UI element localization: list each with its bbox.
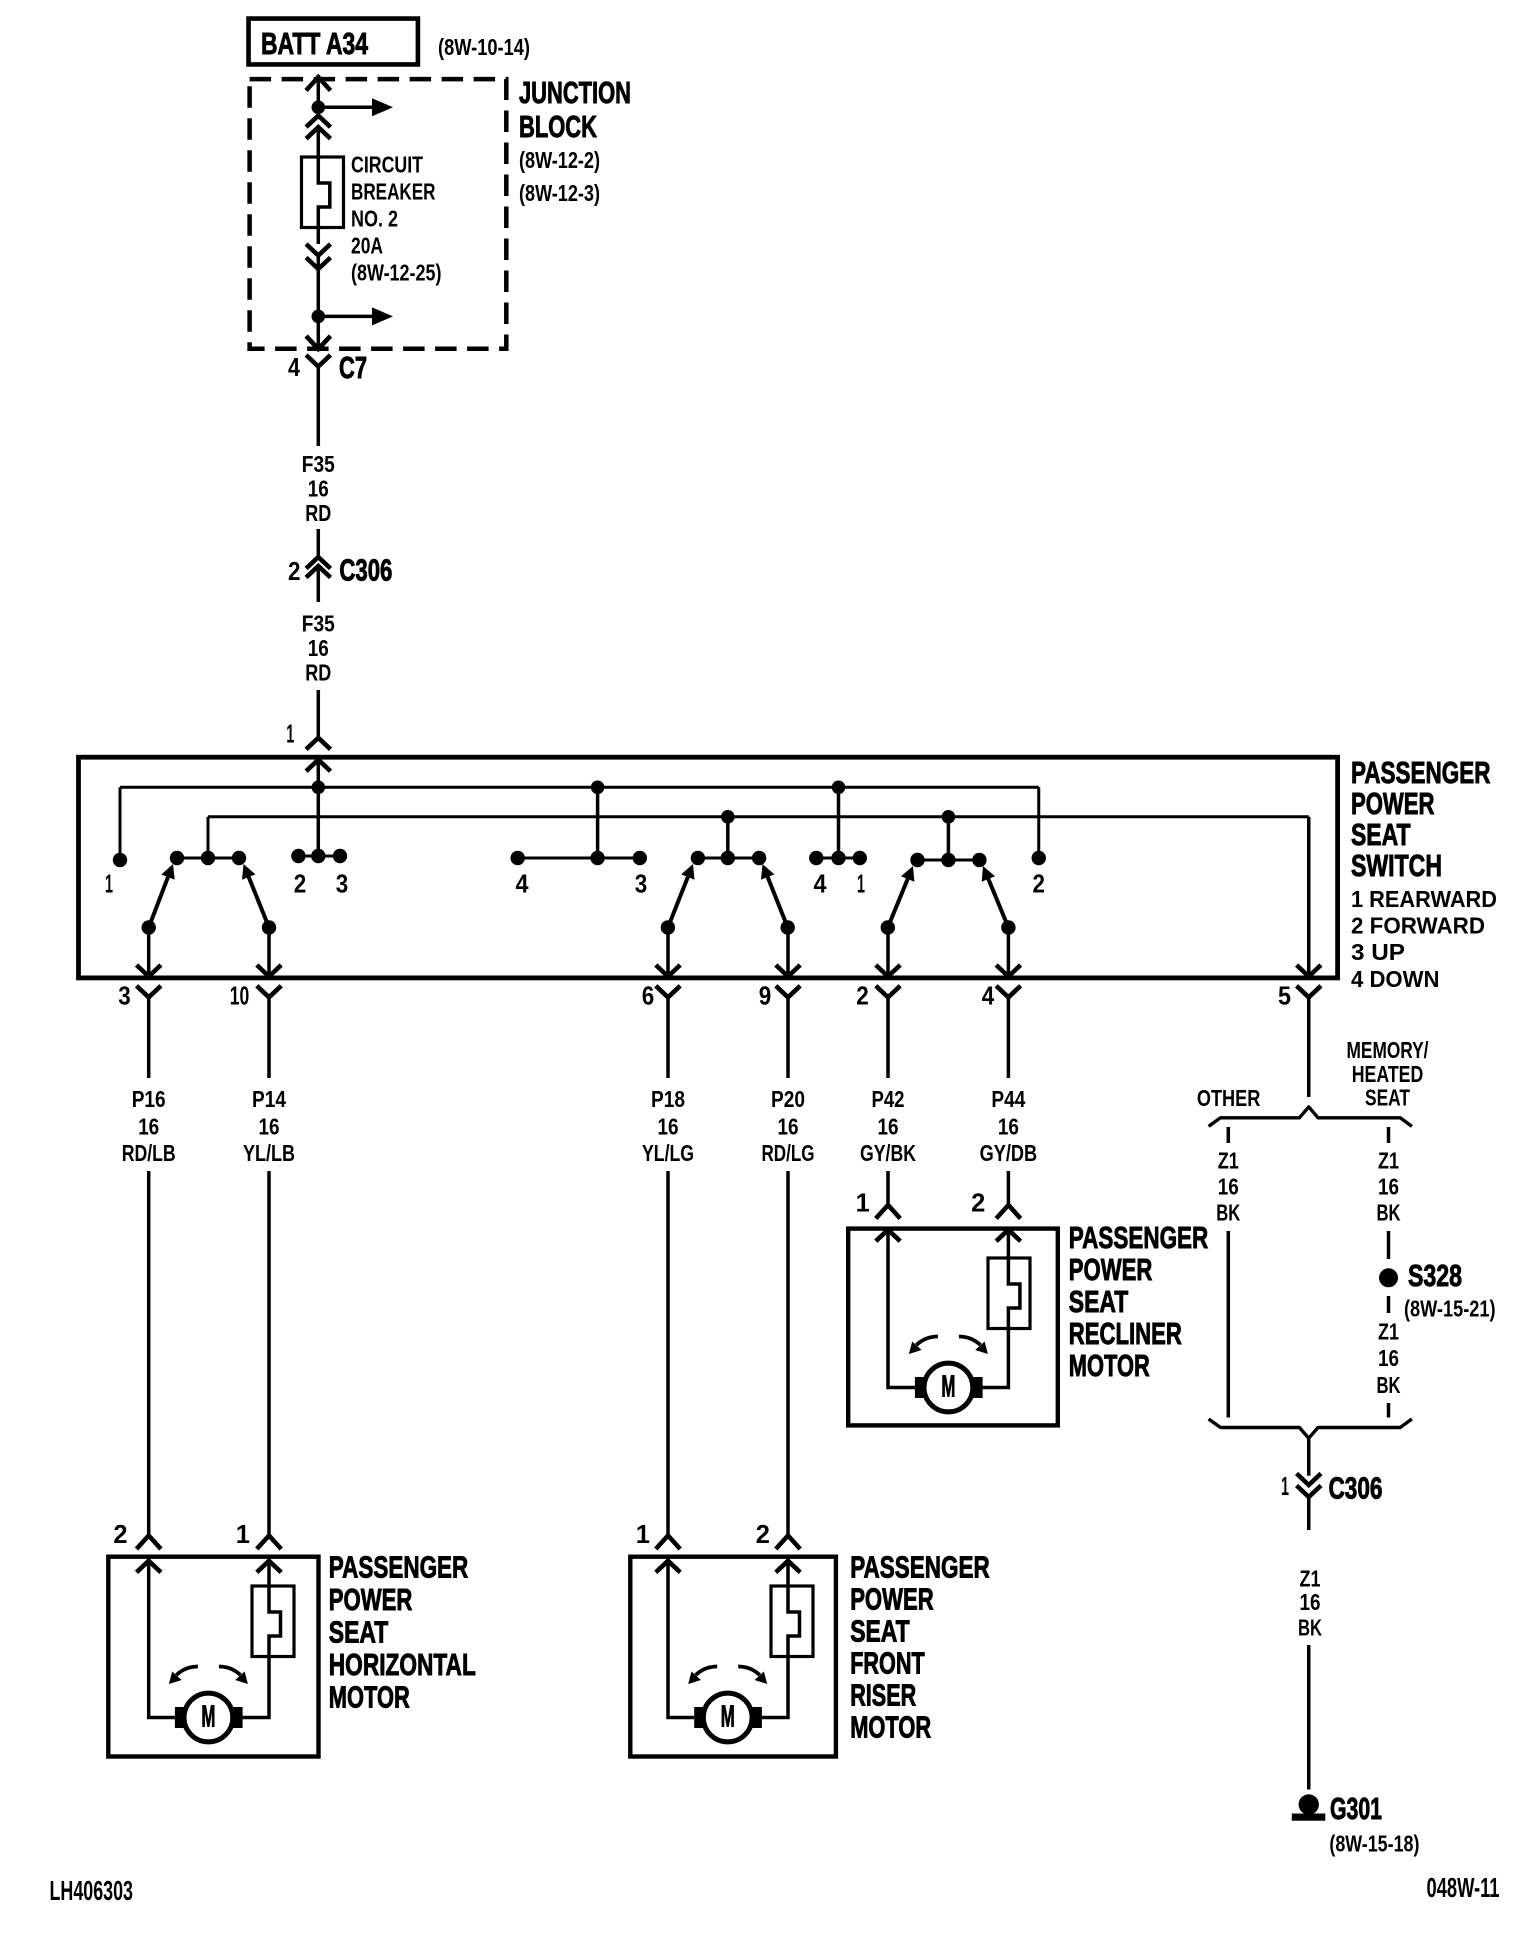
wire to switch pin 1	[317, 690, 321, 738]
wire P14 to horizontal motor	[267, 1171, 271, 1536]
svg-text:SWITCH: SWITCH	[1351, 849, 1442, 883]
svg-text:4: 4	[516, 871, 530, 899]
connector C306 pin 1 (ground side)	[1297, 1474, 1321, 1486]
svg-text:16: 16	[308, 635, 329, 661]
wire P42 to recliner motor	[886, 1171, 890, 1205]
switch pin 6 exit	[666, 928, 670, 976]
svg-text:POWER: POWER	[850, 1583, 934, 1617]
contact group pins2/4 fixed contacts	[918, 859, 980, 862]
svg-text:4: 4	[814, 871, 828, 899]
arrow to other circuits (top)	[318, 106, 372, 110]
wire feed from BATT into junction block	[306, 77, 330, 91]
recliner motor box	[848, 1229, 1058, 1426]
wire to ground G301	[1307, 1645, 1311, 1790]
svg-text:SEAT: SEAT	[1069, 1285, 1129, 1319]
svg-text:GY/DB: GY/DB	[980, 1140, 1038, 1166]
front riser motor rotation arcs	[696, 1667, 718, 1676]
svg-text:1: 1	[105, 871, 113, 899]
svg-text:POWER: POWER	[329, 1583, 413, 1617]
svg-text:RISER: RISER	[850, 1679, 916, 1713]
svg-text:M: M	[941, 1369, 955, 1403]
horizontal motor pin 2 entry	[137, 1536, 161, 1550]
wire P20 to front riser motor	[786, 1171, 790, 1536]
bus A right drop to contact 2	[1037, 787, 1040, 855]
svg-text:16: 16	[308, 476, 329, 502]
circuit breaker no.2 20A	[302, 157, 344, 228]
wire P18 to front riser motor	[666, 1171, 670, 1536]
wire pin2 through breaker to riser motor	[786, 1561, 790, 1586]
svg-text:6: 6	[642, 983, 655, 1011]
svg-text:JUNCTION: JUNCTION	[519, 76, 631, 110]
svg-text:CIRCUIT: CIRCUIT	[351, 152, 423, 178]
svg-text:Z1: Z1	[1378, 1148, 1399, 1174]
node bus A mid	[591, 781, 605, 795]
svg-text:4: 4	[982, 983, 995, 1011]
svg-text:P18: P18	[651, 1086, 685, 1112]
front riser motor pin 2 entry	[776, 1536, 800, 1550]
svg-text:3: 3	[118, 983, 131, 1011]
svg-text:PASSENGER: PASSENGER	[1069, 1221, 1209, 1255]
bus B left drop	[207, 817, 210, 853]
wire pin1 through breaker to motor	[267, 1561, 271, 1586]
switch pin 9 exit	[786, 928, 790, 976]
node breaker output	[312, 310, 326, 324]
svg-text:20A: 20A	[351, 233, 383, 259]
junction block (dashed box)	[250, 79, 507, 349]
contact 1 (single)	[113, 853, 127, 867]
svg-text:BREAKER: BREAKER	[351, 179, 436, 205]
connector C7 pin 4	[306, 355, 330, 367]
svg-text:16: 16	[1378, 1174, 1399, 1200]
svg-text:SEAT: SEAT	[850, 1615, 910, 1649]
bus A wire	[120, 786, 1039, 789]
svg-text:BK: BK	[1377, 1200, 1401, 1226]
recliner motor pin 1 entry	[876, 1205, 900, 1219]
svg-text:OTHER: OTHER	[1197, 1085, 1261, 1111]
svg-text:P42: P42	[872, 1086, 905, 1112]
switch pin 10 exit	[267, 928, 271, 976]
svg-text:16: 16	[1218, 1174, 1239, 1200]
front riser motor M	[703, 1693, 752, 1742]
svg-text:Z1: Z1	[1218, 1148, 1239, 1174]
svg-text:9: 9	[759, 983, 772, 1011]
svg-text:2: 2	[113, 1521, 127, 1549]
wire pin1 to riser motor	[668, 1561, 694, 1718]
passenger power seat horizontal motor box	[108, 1557, 318, 1757]
svg-text:10: 10	[230, 983, 250, 1011]
switch pin 4 exit	[1007, 928, 1011, 976]
passenger power seat switch box	[79, 757, 1338, 978]
front riser motor box	[630, 1557, 836, 1757]
node bus A right	[832, 781, 846, 795]
wire bus B mid to contacts	[726, 817, 730, 858]
wire to C306	[317, 529, 321, 557]
svg-text:(8W-15-18): (8W-15-18)	[1329, 1831, 1419, 1857]
svg-text:Z1: Z1	[1378, 1319, 1399, 1345]
svg-text:S328: S328	[1408, 1259, 1462, 1293]
svg-text:(8W-15-21): (8W-15-21)	[1404, 1296, 1496, 1322]
wire pin2 to motor	[149, 1561, 175, 1718]
wire merge to C306	[1307, 1438, 1311, 1476]
ground G301	[1299, 1794, 1319, 1814]
svg-text:(8W-10-14): (8W-10-14)	[438, 34, 530, 60]
svg-text:1: 1	[286, 721, 294, 749]
svg-text:RD/LG: RD/LG	[762, 1140, 815, 1166]
bus B right drop to pin 5	[1307, 817, 1311, 975]
svg-text:16: 16	[998, 1114, 1019, 1140]
node feed junction	[312, 101, 326, 115]
contact 2 (single)	[1032, 851, 1046, 865]
svg-text:HORIZONTAL: HORIZONTAL	[329, 1648, 476, 1682]
svg-text:G301: G301	[1330, 1792, 1382, 1826]
svg-text:1: 1	[857, 871, 865, 899]
svg-text:PASSENGER: PASSENGER	[329, 1551, 469, 1585]
node bus B mid	[721, 810, 735, 824]
svg-text:MOTOR: MOTOR	[329, 1681, 410, 1715]
wire to junction block edge	[317, 316, 321, 348]
wiper pin 10	[262, 920, 276, 934]
wire pin1 to bus A	[317, 760, 321, 789]
switch pin 3 exit	[147, 928, 151, 976]
recliner motor pin 2 entry	[996, 1205, 1020, 1219]
svg-text:BK: BK	[1298, 1615, 1322, 1641]
wiper pin 4	[1001, 920, 1015, 934]
svg-text:2: 2	[294, 871, 307, 899]
svg-text:RD: RD	[305, 500, 331, 526]
wire feed dot to 2-3 contacts	[317, 787, 321, 856]
svg-text:16: 16	[1378, 1345, 1399, 1371]
wire P16 to horizontal motor	[147, 1171, 151, 1536]
connector chevrons inside junction block	[306, 116, 330, 128]
svg-text:(8W-12-2): (8W-12-2)	[519, 147, 600, 173]
dashed lead to merge	[1387, 1403, 1391, 1418]
front riser motor pin 1 entry	[656, 1536, 680, 1550]
svg-text:5: 5	[1278, 983, 1291, 1011]
svg-text:M: M	[721, 1699, 735, 1733]
svg-text:4: 4	[288, 354, 301, 382]
svg-text:BK: BK	[1377, 1372, 1401, 1398]
svg-text:F35: F35	[302, 611, 335, 637]
dashed wire to splice S328	[1387, 1231, 1391, 1259]
svg-text:SEAT: SEAT	[1351, 818, 1411, 852]
bus B wire	[208, 815, 1309, 818]
svg-text:C306: C306	[339, 554, 392, 588]
svg-text:P44: P44	[991, 1086, 1025, 1112]
switch pin 5 exit	[1307, 928, 1311, 976]
dashed lead OTHER branch	[1227, 1127, 1231, 1143]
svg-text:1 REARWARD: 1 REARWARD	[1351, 886, 1497, 912]
svg-text:(8W-12-3): (8W-12-3)	[519, 180, 600, 206]
wire bus B to pins2/4 contacts	[947, 817, 951, 860]
wire bus A to 4-3 contacts	[596, 787, 600, 858]
svg-text:BATT A34: BATT A34	[261, 27, 368, 61]
horizontal motor rotation arcs	[176, 1667, 198, 1676]
svg-text:POWER: POWER	[1069, 1253, 1153, 1287]
wire breaker output	[317, 256, 321, 317]
svg-text:NO. 2: NO. 2	[351, 206, 398, 232]
svg-text:3: 3	[336, 871, 349, 899]
svg-text:PASSENGER: PASSENGER	[850, 1551, 990, 1585]
connector C306 pin 2	[306, 557, 330, 569]
svg-text:P20: P20	[771, 1086, 805, 1112]
wire pin1 to recliner motor	[888, 1230, 915, 1388]
svg-text:16: 16	[878, 1114, 899, 1140]
svg-text:2: 2	[856, 983, 869, 1011]
recliner motor rotation arcs	[916, 1337, 938, 1346]
svg-text:1: 1	[636, 1521, 650, 1549]
svg-text:RECLINER: RECLINER	[1069, 1317, 1182, 1351]
svg-text:2 FORWARD: 2 FORWARD	[1351, 913, 1485, 939]
svg-text:BLOCK: BLOCK	[519, 110, 597, 144]
svg-text:2: 2	[971, 1190, 985, 1218]
svg-text:1: 1	[1281, 1473, 1289, 1501]
split brace to OTHER / MEMORY-HEATED SEAT	[1209, 1107, 1412, 1127]
svg-text:MEMORY/: MEMORY/	[1347, 1037, 1429, 1063]
wiper pin 6	[661, 920, 675, 934]
wire Z1 OTHER branch	[1227, 1231, 1231, 1418]
svg-text:4 DOWN: 4 DOWN	[1351, 966, 1440, 992]
svg-text:16: 16	[658, 1114, 679, 1140]
recliner motor thermal breaker	[988, 1258, 1030, 1329]
svg-text:SEAT: SEAT	[1365, 1085, 1410, 1111]
svg-text:POWER: POWER	[1351, 787, 1435, 821]
arrow to other circuits (bottom)	[318, 315, 372, 319]
connector chevrons below breaker	[317, 228, 321, 245]
switch connector pin 1	[306, 738, 330, 750]
svg-text:2: 2	[288, 558, 301, 586]
svg-text:Z1: Z1	[1300, 1566, 1321, 1592]
svg-text:1: 1	[236, 1521, 250, 1549]
wire to circuit breaker	[317, 127, 321, 157]
svg-text:F35: F35	[302, 451, 335, 477]
splice S328	[1379, 1268, 1398, 1287]
svg-text:3: 3	[635, 871, 648, 899]
wiper pin 3	[142, 920, 156, 934]
svg-text:YL/LB: YL/LB	[243, 1140, 295, 1166]
svg-text:P16: P16	[132, 1086, 166, 1112]
contact group 4-3	[518, 857, 640, 860]
contact group pins6/9 fixed contacts	[698, 857, 759, 860]
svg-text:GY/BK: GY/BK	[860, 1140, 916, 1166]
power feed box BATT A34	[249, 19, 418, 65]
svg-text:2: 2	[756, 1521, 770, 1549]
svg-text:C306: C306	[1329, 1472, 1383, 1506]
svg-text:FRONT: FRONT	[850, 1647, 925, 1681]
svg-text:M: M	[201, 1699, 215, 1733]
wire bus A right to 4-1 contacts	[837, 787, 841, 858]
contact group 4-1	[816, 857, 860, 860]
horizontal motor M	[184, 1693, 233, 1742]
svg-text:16: 16	[1300, 1589, 1321, 1615]
svg-text:16: 16	[778, 1114, 799, 1140]
svg-text:16: 16	[259, 1114, 280, 1140]
svg-text:PASSENGER: PASSENGER	[1351, 756, 1491, 790]
svg-text:048W-11: 048W-11	[1427, 1872, 1500, 1903]
switch pin 2 exit	[886, 928, 890, 976]
front riser motor thermal breaker	[771, 1586, 813, 1657]
svg-text:MOTOR: MOTOR	[850, 1711, 931, 1745]
svg-text:2: 2	[1033, 871, 1046, 899]
contact group pins3/10 fixed contacts	[177, 857, 239, 860]
svg-text:16: 16	[138, 1114, 159, 1140]
svg-text:(8W-12-25): (8W-12-25)	[351, 260, 442, 286]
dashed wire below splice	[1387, 1296, 1391, 1313]
bus A left drop to contact 1	[119, 787, 122, 856]
contact group 2-3 (feed)	[298, 855, 340, 858]
dashed lead MEMORY branch	[1387, 1127, 1391, 1143]
wiper pin 2	[881, 920, 895, 934]
svg-text:1: 1	[856, 1190, 870, 1218]
horizontal motor pin 1 entry	[257, 1536, 281, 1550]
svg-text:RD: RD	[305, 659, 331, 685]
wire P44 to recliner motor	[1007, 1171, 1011, 1205]
svg-text:C7: C7	[339, 351, 367, 385]
svg-text:3 UP: 3 UP	[1351, 939, 1405, 965]
svg-text:BK: BK	[1216, 1200, 1240, 1226]
recliner motor M	[924, 1363, 973, 1412]
svg-text:YL/LG: YL/LG	[642, 1140, 694, 1166]
merge brace to C306	[1209, 1419, 1412, 1438]
svg-text:P14: P14	[252, 1086, 286, 1112]
wire pin2 through breaker to recliner motor	[1007, 1230, 1011, 1258]
node bus A feed	[312, 781, 326, 795]
svg-text:LH406303: LH406303	[50, 1875, 134, 1906]
horizontal motor thermal breaker	[252, 1586, 294, 1657]
node bus B right	[942, 810, 956, 824]
svg-text:HEATED: HEATED	[1352, 1061, 1424, 1087]
svg-text:RD/LB: RD/LB	[122, 1140, 176, 1166]
wiper pin 9	[781, 920, 795, 934]
svg-text:SEAT: SEAT	[329, 1616, 389, 1650]
svg-text:MOTOR: MOTOR	[1069, 1349, 1150, 1383]
